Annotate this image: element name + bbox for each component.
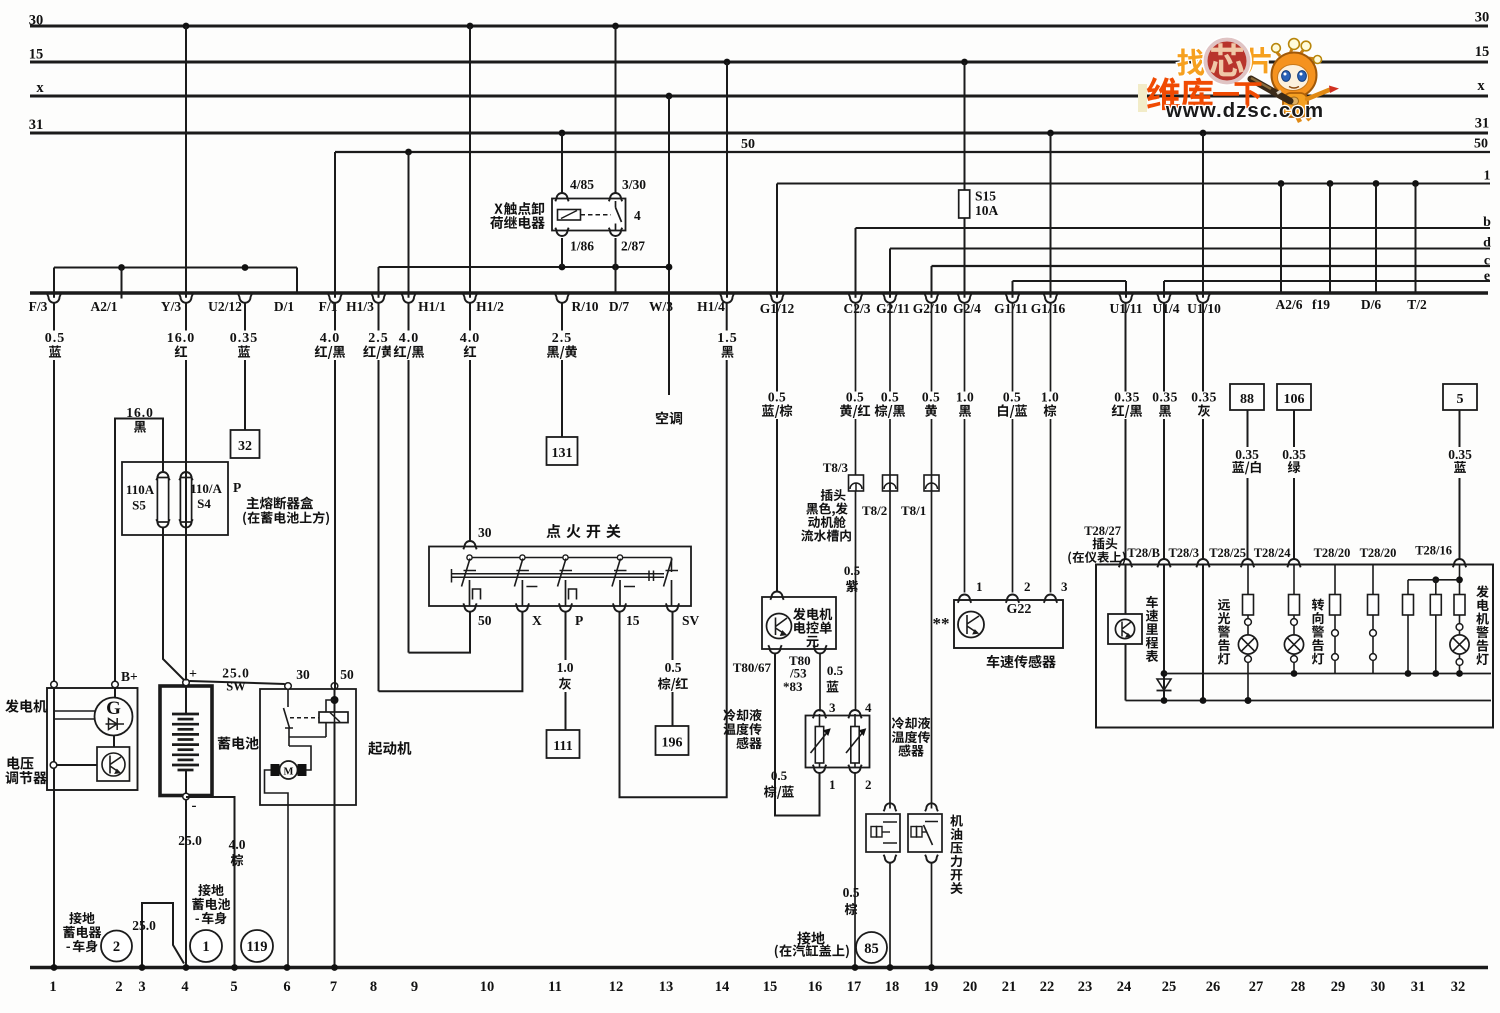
svg-text:T28/B: T28/B: [1127, 546, 1160, 560]
svg-text:50: 50: [1474, 137, 1488, 152]
svg-text:0.5: 0.5: [1003, 390, 1021, 405]
svg-text:30: 30: [296, 667, 310, 682]
svg-text:0.5: 0.5: [665, 660, 682, 675]
svg-text:D/7: D/7: [609, 299, 630, 314]
svg-text:9: 9: [411, 979, 418, 995]
svg-text:Y/3: Y/3: [161, 299, 182, 314]
svg-text:30: 30: [29, 13, 44, 29]
svg-text:16.0: 16.0: [126, 405, 154, 420]
svg-text:G2/10: G2/10: [913, 301, 948, 316]
svg-text:W/3: W/3: [649, 299, 673, 314]
svg-text:B+: B+: [121, 669, 138, 684]
svg-text:5: 5: [1457, 392, 1464, 407]
svg-text:18: 18: [885, 979, 900, 995]
svg-text:85: 85: [864, 941, 879, 957]
svg-text:4: 4: [181, 979, 188, 995]
svg-text:0.35: 0.35: [1448, 447, 1472, 462]
svg-text:+: +: [189, 667, 197, 682]
svg-text:1.5: 1.5: [717, 331, 738, 346]
svg-text:**: **: [933, 614, 950, 633]
svg-text:2: 2: [865, 777, 872, 792]
svg-text:1.0: 1.0: [557, 660, 574, 675]
svg-text:15: 15: [1475, 44, 1490, 60]
svg-text:2: 2: [1024, 579, 1031, 594]
svg-text:2: 2: [115, 979, 122, 995]
svg-text:H1/1: H1/1: [418, 299, 446, 314]
svg-text:1/86: 1/86: [570, 239, 594, 254]
svg-text:-: -: [192, 798, 197, 814]
svg-text:C2/3: C2/3: [844, 301, 871, 316]
svg-text:d: d: [1483, 236, 1491, 251]
svg-text:1: 1: [202, 939, 209, 955]
svg-text:88: 88: [1240, 392, 1254, 407]
svg-text:G2/11: G2/11: [876, 301, 910, 316]
svg-text:G1/11: G1/11: [994, 301, 1028, 316]
svg-text:30: 30: [1475, 10, 1490, 26]
svg-text:SW: SW: [226, 680, 246, 694]
svg-text:P: P: [575, 613, 583, 628]
svg-text:131: 131: [552, 446, 573, 461]
svg-text:0.5: 0.5: [846, 390, 864, 405]
svg-text:3/30: 3/30: [622, 177, 646, 192]
svg-text:106: 106: [1284, 392, 1305, 407]
svg-text:T28/20: T28/20: [1314, 546, 1351, 560]
svg-text:5: 5: [230, 979, 237, 995]
svg-text:28: 28: [1291, 979, 1306, 995]
svg-text:c: c: [1484, 254, 1490, 269]
svg-text:S4: S4: [197, 496, 211, 511]
svg-text:10A: 10A: [975, 203, 999, 218]
svg-text:1: 1: [49, 979, 56, 995]
svg-text:0.5: 0.5: [768, 390, 786, 405]
svg-text:111: 111: [553, 739, 572, 754]
svg-text:24: 24: [1117, 979, 1132, 995]
svg-text:e: e: [1484, 269, 1490, 284]
svg-text:T28/20: T28/20: [1360, 546, 1397, 560]
svg-text:0.35: 0.35: [1152, 390, 1178, 405]
svg-text:T8/2: T8/2: [862, 503, 887, 518]
svg-text:27: 27: [1249, 979, 1264, 995]
svg-text:1: 1: [829, 777, 836, 792]
svg-text:4.0: 4.0: [229, 837, 246, 852]
svg-text:F/3: F/3: [29, 299, 48, 314]
svg-text:H1/4: H1/4: [697, 299, 725, 314]
svg-text:8: 8: [370, 979, 377, 995]
svg-text:25: 25: [1162, 979, 1177, 995]
svg-text:T28/27: T28/27: [1084, 524, 1121, 538]
svg-text:0.5: 0.5: [827, 663, 844, 678]
svg-text:0.5: 0.5: [922, 390, 940, 405]
svg-text:1: 1: [976, 579, 983, 594]
svg-text:16.0: 16.0: [167, 331, 196, 346]
svg-text:1.0: 1.0: [1041, 390, 1059, 405]
svg-text:1: 1: [1484, 169, 1491, 184]
svg-text:0.5: 0.5: [45, 331, 66, 346]
svg-text:3: 3: [1061, 579, 1068, 594]
svg-text:2/87: 2/87: [621, 239, 645, 254]
svg-text:T8/3: T8/3: [823, 460, 849, 475]
svg-text:19: 19: [924, 979, 939, 995]
svg-text:U1/4: U1/4: [1153, 301, 1180, 316]
svg-text:T/2: T/2: [1407, 297, 1427, 312]
svg-text:G2/4: G2/4: [953, 301, 981, 316]
svg-text:14: 14: [715, 979, 730, 995]
svg-text:32: 32: [238, 439, 252, 454]
svg-text:1.0: 1.0: [956, 390, 974, 405]
svg-text:7: 7: [330, 979, 337, 995]
svg-text:110/A: 110/A: [190, 481, 222, 496]
svg-text:15: 15: [29, 47, 44, 63]
svg-text:T28/24: T28/24: [1254, 546, 1292, 560]
svg-text:3: 3: [829, 700, 836, 715]
svg-text:13: 13: [659, 979, 674, 995]
svg-text:25.0: 25.0: [222, 666, 250, 681]
svg-text:31: 31: [1475, 116, 1490, 132]
svg-text:P: P: [233, 480, 241, 495]
svg-text:U1/10: U1/10: [1187, 301, 1221, 316]
svg-text:29: 29: [1331, 979, 1346, 995]
svg-text:23: 23: [1078, 979, 1093, 995]
svg-text:0.35: 0.35: [1114, 390, 1140, 405]
svg-text:T28/3: T28/3: [1168, 546, 1199, 560]
svg-text:25.0: 25.0: [178, 833, 202, 848]
svg-text:2: 2: [113, 939, 120, 955]
svg-text:T28/25: T28/25: [1209, 546, 1246, 560]
svg-text:11: 11: [548, 979, 562, 995]
svg-text:50: 50: [741, 137, 755, 152]
svg-text:22: 22: [1040, 979, 1055, 995]
svg-text:2.5: 2.5: [552, 331, 573, 346]
svg-text:A2/6: A2/6: [1276, 297, 1303, 312]
svg-text:4: 4: [634, 208, 641, 223]
svg-text:x: x: [36, 80, 44, 96]
svg-text:12: 12: [609, 979, 624, 995]
svg-text:196: 196: [662, 736, 683, 751]
svg-text:50: 50: [478, 613, 492, 628]
svg-text:50: 50: [340, 667, 354, 682]
svg-text:4.0: 4.0: [460, 331, 481, 346]
svg-text:30: 30: [1371, 979, 1386, 995]
svg-text:H1/2: H1/2: [476, 299, 504, 314]
svg-text:25.0: 25.0: [132, 918, 156, 933]
svg-text:110A: 110A: [126, 482, 155, 497]
svg-text:A2/1: A2/1: [91, 299, 118, 314]
svg-text:b: b: [1483, 215, 1491, 230]
svg-text:x: x: [1477, 78, 1485, 94]
svg-text:0.5: 0.5: [844, 563, 861, 578]
svg-text:G1/16: G1/16: [1031, 301, 1066, 316]
svg-text:X: X: [532, 613, 542, 628]
svg-text:T28/16: T28/16: [1415, 544, 1452, 558]
svg-text:SV: SV: [682, 613, 700, 628]
svg-text:0.35: 0.35: [230, 331, 259, 346]
svg-text:S15: S15: [975, 189, 996, 204]
svg-text:f19: f19: [1312, 297, 1330, 312]
svg-text:4/85: 4/85: [570, 177, 594, 192]
svg-text:0.5: 0.5: [881, 390, 899, 405]
svg-text:T8/1: T8/1: [901, 503, 926, 518]
svg-text:15: 15: [763, 979, 778, 995]
svg-text:D/1: D/1: [274, 299, 295, 314]
svg-text:26: 26: [1206, 979, 1221, 995]
svg-text:www.dzsc.com: www.dzsc.com: [1165, 99, 1324, 122]
svg-text:10: 10: [480, 979, 495, 995]
svg-text:S5: S5: [132, 498, 146, 513]
svg-text:R/10: R/10: [572, 299, 599, 314]
svg-text:U2/12: U2/12: [208, 299, 242, 314]
svg-text:G: G: [106, 698, 121, 719]
svg-text:16: 16: [808, 979, 823, 995]
svg-text:D/6: D/6: [1361, 297, 1382, 312]
svg-text:31: 31: [1411, 979, 1426, 995]
svg-text:32: 32: [1451, 979, 1466, 995]
svg-text:31: 31: [29, 117, 44, 133]
svg-text:0.35: 0.35: [1282, 447, 1306, 462]
svg-text:119: 119: [247, 939, 268, 955]
svg-text:G22: G22: [1007, 602, 1032, 617]
svg-text:21: 21: [1002, 979, 1017, 995]
svg-text:15: 15: [626, 613, 640, 628]
svg-text:0.35: 0.35: [1235, 447, 1259, 462]
svg-text:3: 3: [138, 979, 145, 995]
svg-text:6: 6: [283, 979, 290, 995]
svg-text:4.0: 4.0: [399, 331, 420, 346]
svg-text:4: 4: [865, 700, 872, 715]
svg-text:4.0: 4.0: [320, 331, 341, 346]
svg-text:0.35: 0.35: [1191, 390, 1217, 405]
svg-text:0.5: 0.5: [843, 885, 860, 900]
svg-text:0.5: 0.5: [771, 768, 788, 783]
svg-text:20: 20: [963, 979, 978, 995]
svg-text:M: M: [284, 767, 294, 778]
svg-text:17: 17: [847, 979, 862, 995]
svg-text:T80/67: T80/67: [733, 660, 772, 675]
svg-text:2.5: 2.5: [368, 331, 389, 346]
svg-text:*83: *83: [783, 679, 803, 694]
svg-text:30: 30: [478, 525, 492, 540]
svg-text:H1/3: H1/3: [346, 299, 374, 314]
